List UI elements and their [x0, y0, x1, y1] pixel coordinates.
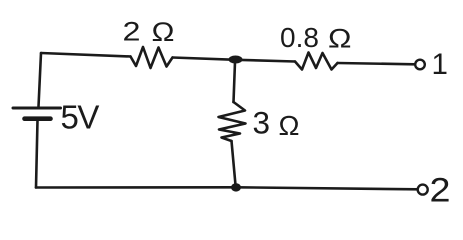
svg-text:2: 2: [430, 172, 451, 210]
wire node A down to R3: [234, 62, 236, 102]
battery V1 top plate: [13, 107, 61, 110]
node A junction dot: [229, 56, 243, 64]
svg-text:2: 2: [123, 17, 141, 47]
svg-text:1: 1: [432, 48, 448, 81]
resistor R1 2ohm zigzag: [131, 47, 173, 68]
resistor R3 3ohm zigzag: [219, 102, 246, 141]
node B junction dot: [231, 183, 241, 191]
wire bottom: [36, 187, 417, 189]
wire top left horizontal: [41, 53, 131, 57]
wire R2 to terminal 1: [338, 63, 415, 64]
wire R3 to bottom node B: [232, 141, 236, 185]
svg-text:Ω: Ω: [279, 110, 300, 141]
battery V1 bottom plate: [25, 116, 51, 121]
wire R1 to node A: [173, 58, 237, 60]
terminal 1 circle: [415, 60, 425, 70]
resistor R2 0.8ohm zigzag: [295, 53, 338, 70]
wire left vertical upper: [39, 53, 42, 107]
terminal 2 circle: [418, 185, 428, 195]
wire node A to R2: [236, 60, 295, 62]
svg-text:Ω: Ω: [328, 23, 352, 53]
svg-text:5V: 5V: [61, 99, 100, 136]
wire left vertical lower: [36, 121, 38, 188]
svg-text:Ω: Ω: [152, 17, 175, 47]
svg-text:3: 3: [253, 105, 271, 141]
svg-text:0.8: 0.8: [280, 22, 319, 53]
